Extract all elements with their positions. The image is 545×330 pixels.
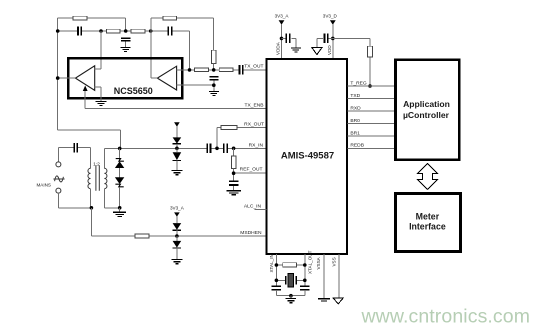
svg-text:VDD: VDD (327, 45, 332, 55)
wire TX_ENB (85, 107, 265, 109)
capacitor feedback stage 2 (168, 27, 171, 36)
double arrow uC to meter (418, 163, 438, 189)
ground (op-amp A minus input) (96, 101, 107, 105)
wire VSSD (338, 254, 340, 297)
wire: mains bottom (58, 193, 91, 208)
wire: op-amp A output rail to line coupler (58, 130, 121, 148)
resistor R2a (195, 68, 209, 72)
ground (crystal) (286, 296, 297, 303)
svg-text:ALC_IN: ALC_IN (244, 203, 262, 209)
wire: op-amp A input stubs (95, 69, 101, 101)
wire VSSA (323, 254, 325, 298)
transformer primary winding (88, 148, 91, 208)
label TX_OUT (244, 64, 263, 70)
node dot rail/line (56, 29, 60, 33)
svg-text:VSSA: VSSA (316, 256, 321, 269)
transformer core (96, 166, 99, 191)
wire 3V3_D to T_REG pull-up (333, 38, 370, 86)
svg-text:T_REG: T_REG (350, 80, 367, 86)
label RX_IN (249, 142, 264, 148)
label 1:2 (93, 162, 100, 168)
AMIS-49587 label (281, 151, 334, 162)
Meter Interface box (395, 193, 460, 251)
NCS5650 box (68, 58, 182, 98)
capacitor XTAL_OUT load (300, 286, 309, 295)
wire XTAL_IN (275, 254, 277, 286)
svg-text:RX_IN: RX_IN (249, 142, 264, 148)
wire: output rail of op-amp A (57, 18, 59, 130)
capacitor RX coupling 2 (224, 144, 227, 153)
label T_REG (350, 80, 367, 86)
AMIS-49587 box (267, 59, 347, 254)
op-amp A (left) (75, 66, 94, 91)
wire XTAL_OUT (304, 254, 306, 286)
label REDB (350, 143, 364, 149)
resistor R1a (106, 29, 120, 33)
resistor R2b (219, 68, 233, 72)
wire: stage 2 output vertical (150, 18, 152, 78)
svg-text:TXD: TXD (350, 93, 360, 99)
diode RX clamp lower (173, 148, 182, 170)
pin label XTAL_OUT (vertical) (307, 250, 312, 274)
node dot VDDA (280, 37, 284, 41)
node dot mains bottom junction (90, 206, 94, 210)
Application uController box (395, 60, 459, 160)
resistor RX bias vertical (232, 148, 236, 168)
label 3V3_A (clamp) (170, 206, 185, 211)
node dots crystal top (275, 263, 307, 267)
wire T_REG (348, 85, 394, 87)
enable arrow into op-amp A (83, 86, 88, 109)
ground (REF_OUT cap) (226, 191, 241, 195)
wire: mains top with coupling cap (58, 148, 90, 162)
node dot input op-amp A (99, 29, 103, 33)
wire VDD supply (332, 24, 334, 58)
capacitor to ground at mid node 1 (121, 38, 130, 47)
svg-text:VSS: VSS (331, 257, 336, 266)
node dot output stage 2 (149, 29, 153, 33)
node dot crystal ground (289, 294, 293, 298)
node dot op-amp B input (188, 68, 192, 72)
crystal Y1 (276, 274, 304, 287)
NCS5650 label (114, 86, 153, 96)
resistor feedback loop 2 (163, 16, 177, 20)
diode RX clamp upper (173, 137, 182, 148)
svg-text:VDDA: VDDA (276, 41, 281, 55)
node dots crystal line (275, 279, 307, 283)
ground (VSSA) (318, 299, 330, 301)
resistor feedback loop 1 (73, 16, 87, 20)
svg-text:BR1: BR1 (350, 130, 360, 136)
resistor feedback vertical stage 2 (212, 50, 216, 70)
wire: TX line (190, 69, 266, 71)
pin label VSS (vertical) (331, 257, 336, 266)
ground (MSDHEN clamp) (171, 260, 182, 264)
svg-text:www.cntronics.com: www.cntronics.com (361, 306, 531, 328)
wire: input vertical into op-amp A (100, 31, 102, 69)
node dot mid filter 1 (124, 29, 128, 33)
node dot op-amp A output on rail (56, 76, 60, 80)
resistor crystal parallel (276, 263, 304, 267)
svg-text:BR0: BR0 (350, 118, 360, 124)
label TXD (350, 93, 360, 99)
wire BR1 (348, 135, 394, 137)
capacitor VDD decoupling (317, 34, 333, 48)
mains terminal top (56, 162, 61, 167)
capacitor XTAL_IN load (272, 286, 281, 295)
label Application uController (403, 99, 450, 120)
svg-text:µController: µController (403, 110, 450, 120)
svg-text:NCS5650: NCS5650 (114, 86, 153, 96)
node dot REF_OUT (232, 171, 236, 175)
ground (RX clamp) (171, 171, 182, 175)
pin label VDDA (vertical) (276, 41, 281, 55)
svg-text:XTAL_OUT: XTAL_OUT (307, 250, 312, 274)
wire: op-amp B input stubs (177, 70, 214, 85)
svg-text:Application: Application (403, 99, 450, 109)
wire: secondary top to RX line (104, 147, 119, 149)
wire RX_OUT (217, 128, 266, 149)
capacitor mains coupling (74, 143, 77, 152)
svg-text:3V3_A: 3V3_A (170, 206, 185, 211)
pin label VSSA (vertical) (316, 256, 321, 269)
earth triangle (VDD cap) (312, 48, 322, 55)
diode MSDHEN clamp lower (173, 236, 182, 259)
node dot TVS bottom (118, 206, 122, 210)
resistor RX_OUT (221, 125, 237, 129)
capacitor REF_OUT (229, 181, 238, 190)
wire REDB (348, 147, 394, 149)
wire: feedback loop 2 top (151, 18, 214, 50)
svg-text:RX_OUT: RX_OUT (244, 122, 264, 128)
ground (VDDA cap) (291, 48, 301, 52)
power arrow 3V3_D (330, 20, 336, 24)
capacitor feedback stage 1 (78, 26, 81, 35)
resistor MSDHEN series (135, 234, 149, 238)
wire: feedback loop 1 top (58, 18, 126, 31)
svg-text:XTAL_IN: XTAL_IN (269, 254, 274, 272)
label ALC_IN (244, 203, 262, 209)
label 3V3_A (275, 14, 290, 19)
node dot op-amp B minus input (212, 83, 216, 87)
wire MSDHEN (91, 235, 265, 237)
label BR0 (350, 118, 360, 124)
wire VDDA supply (281, 24, 283, 58)
svg-text:TX_OUT: TX_OUT (244, 64, 263, 70)
label TX_ENB (244, 102, 263, 108)
power arrow (MSDHEN clamp) (174, 212, 180, 223)
TVS zener lower (115, 177, 124, 208)
wire: main filter line y=31 (58, 31, 190, 70)
label BR1 (350, 130, 360, 136)
pin label VDD (vertical) (327, 45, 332, 55)
wire crystal ground bus (276, 295, 304, 297)
svg-text:RXD: RXD (350, 105, 361, 111)
svg-text:Meter: Meter (416, 211, 440, 221)
wire RX_IN (120, 147, 266, 149)
label MSDHEN (240, 230, 262, 236)
svg-text:MAINS: MAINS (36, 183, 51, 188)
label RX_OUT (244, 122, 264, 128)
node dot RX mid (215, 147, 219, 151)
wire ALC_IN stub (255, 208, 267, 210)
svg-text:AMIS-49587: AMIS-49587 (281, 151, 334, 162)
svg-text:REF_OUT: REF_OUT (240, 167, 263, 173)
ground (line side) (113, 208, 126, 217)
wire: op-amp A output (58, 77, 76, 79)
op-amp B (right) (157, 66, 176, 90)
svg-text:Interface: Interface (409, 221, 446, 231)
wire REF_OUT (234, 169, 266, 181)
capacitor RX coupling 1 (207, 144, 210, 153)
capacitor to ground at TX mid node (209, 77, 218, 92)
wire: mains junction down to MSDHEN line (90, 208, 92, 236)
svg-text:TX_ENB: TX_ENB (244, 102, 263, 108)
wire RXD (348, 110, 394, 112)
svg-text:MSDHEN: MSDHEN (240, 230, 262, 236)
power arrow (RX clamp) (174, 122, 180, 137)
transformer secondary winding (104, 148, 119, 207)
wire BR0 (348, 123, 394, 125)
node dot line top (118, 147, 122, 151)
AC source symbol (53, 176, 64, 182)
pin label XTAL_IN (vertical) (269, 254, 274, 272)
node dot MSDHEN clamp (175, 234, 179, 238)
TVS zener upper (115, 148, 124, 177)
label RXD (350, 105, 361, 111)
wire TXD (348, 98, 394, 100)
node dot TX mid (212, 68, 216, 72)
wire: op-amp B output (151, 77, 157, 79)
node dot RX clamp (175, 147, 179, 151)
watermark www.cntronics.com (361, 306, 531, 328)
resistor R1b (131, 29, 145, 33)
svg-text:1:2: 1:2 (93, 162, 100, 168)
label REF_OUT (240, 167, 263, 173)
ground (TX mid node) (209, 92, 219, 96)
label 3V3_D (323, 14, 338, 19)
capacitor VDDA decoupling (282, 34, 296, 48)
ground (mid node 1) (121, 47, 131, 51)
svg-text:3V3_D: 3V3_D (323, 14, 338, 19)
diode MSDHEN clamp upper (173, 223, 182, 236)
capacitor TX coupling (240, 65, 243, 74)
node dot T_REG (368, 84, 372, 88)
label Meter Interface (409, 211, 446, 231)
node dot VDD (331, 37, 335, 41)
earth triangle (VSSD) (333, 298, 343, 304)
resistor T_REG pull-up (368, 46, 373, 57)
label MAINS (36, 183, 51, 188)
node dot RX in (232, 147, 236, 151)
svg-text:REDB: REDB (350, 143, 364, 149)
power arrow 3V3_A (279, 20, 285, 24)
mains terminal bottom (56, 188, 61, 193)
svg-text:3V3_A: 3V3_A (275, 14, 290, 19)
